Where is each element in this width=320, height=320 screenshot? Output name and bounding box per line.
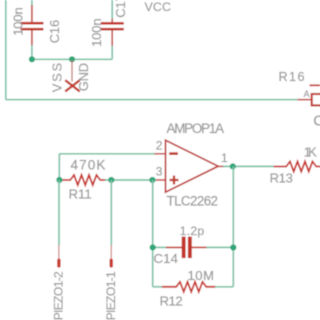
wire: feedback left vertical [152, 180, 154, 287]
svg-text:C14: C14 [154, 251, 179, 266]
wire: C14 right stub [207, 246, 234, 248]
svg-text:TLC2262: TLC2262 [167, 193, 219, 208]
svg-text:C16: C16 [47, 20, 62, 44]
svg-text:470K: 470K [71, 157, 106, 172]
svg-text:PIEZO1-2: PIEZO1-2 [52, 271, 66, 320]
svg-text:3: 3 [156, 164, 163, 178]
svg-text:1: 1 [221, 151, 228, 165]
wire: red stub at top right edge [310, 84, 320, 86]
pin PIEZO1-1 [110, 245, 113, 268]
wire: output net to R13 [223, 165, 274, 167]
wire: C17 top lead from top edge [111, 0, 113, 19]
svg-text:VCC: VCC [145, 0, 172, 14]
junction op-amp output [230, 163, 236, 169]
supply symbol VSS/GND pin line [71, 60, 73, 82]
svg-text:2: 2 [156, 138, 163, 152]
svg-text:VSS: VSS [49, 62, 64, 92]
wire: feedback right vertical [232, 166, 234, 286]
svg-text:C17: C17 [113, 0, 128, 18]
capacitor C16 [20, 5, 43, 46]
svg-text:R13: R13 [270, 171, 293, 186]
resistor R16 lead [298, 99, 312, 101]
svg-text:R12: R12 [160, 293, 183, 308]
wire: long horizontal net to R16 [6, 99, 298, 101]
resistor R13 zigzag (cut by right edge) [274, 162, 320, 172]
op-amp U1 triangle [166, 140, 219, 192]
wire: drop to PIEZO1-2 [58, 180, 60, 245]
wire: VSS horizontal net [32, 58, 112, 60]
op-amp minus symbol [169, 152, 178, 155]
wire: C14 left stub [153, 246, 167, 248]
resistor R12 zigzag [162, 282, 216, 292]
svg-text:GND: GND [76, 63, 91, 92]
junction R11 right [108, 177, 114, 183]
wire: C17 bottom lead down to VSS net [111, 46, 113, 59]
op-amp output pin stub [218, 165, 224, 167]
wire: drop to PIEZO1-1 [110, 180, 112, 245]
op-amp pin 3 stub [155, 179, 166, 181]
capacitor C17 [101, 19, 124, 47]
junction at C16 / VSS net [29, 56, 35, 62]
wire: left vertical rail from top edge down [5, 0, 7, 100]
svg-text:1.2p: 1.2p [180, 224, 205, 238]
junction at VSS symbol drop [69, 56, 75, 62]
svg-text:R16: R16 [279, 70, 305, 84]
svg-text:100n: 100n [11, 7, 26, 36]
junction C14 right [230, 244, 236, 250]
wire: C16 top lead to top edge [31, 0, 33, 6]
op-amp pin 2 stub [155, 153, 166, 155]
wire: pin2 net horizontal [59, 153, 156, 155]
wire: C16 bottom lead to junction [31, 45, 33, 59]
junction R11 left [56, 177, 62, 183]
svg-text:A: A [304, 89, 310, 99]
wire: pin2 net vertical down to R11 [58, 154, 60, 180]
supply symbol VSS/GND X [65, 80, 80, 91]
svg-text:PIEZO1-1: PIEZO1-1 [104, 271, 118, 320]
svg-text:100n: 100n [89, 18, 104, 47]
junction C14 left [150, 244, 156, 250]
pin PIEZO1-2 [57, 245, 60, 268]
op-amp plus symbol [170, 176, 179, 185]
wire: R11 right to op-amp pin3 [105, 179, 156, 181]
svg-text:1K: 1K [304, 145, 317, 160]
svg-text:AMPOP1A: AMPOP1A [167, 121, 225, 136]
resistor R16 box (cut by right edge) [312, 94, 320, 105]
capacitor C14 [166, 237, 207, 259]
wire: R12 right stub [215, 286, 233, 288]
svg-text:C: C [313, 112, 320, 129]
wire: R12 left stub [153, 286, 163, 288]
svg-text:10M: 10M [188, 268, 215, 283]
junction pin3 feedback tap [149, 177, 155, 183]
resistor R11 zigzag [59, 175, 105, 185]
svg-text:R11: R11 [69, 187, 92, 202]
